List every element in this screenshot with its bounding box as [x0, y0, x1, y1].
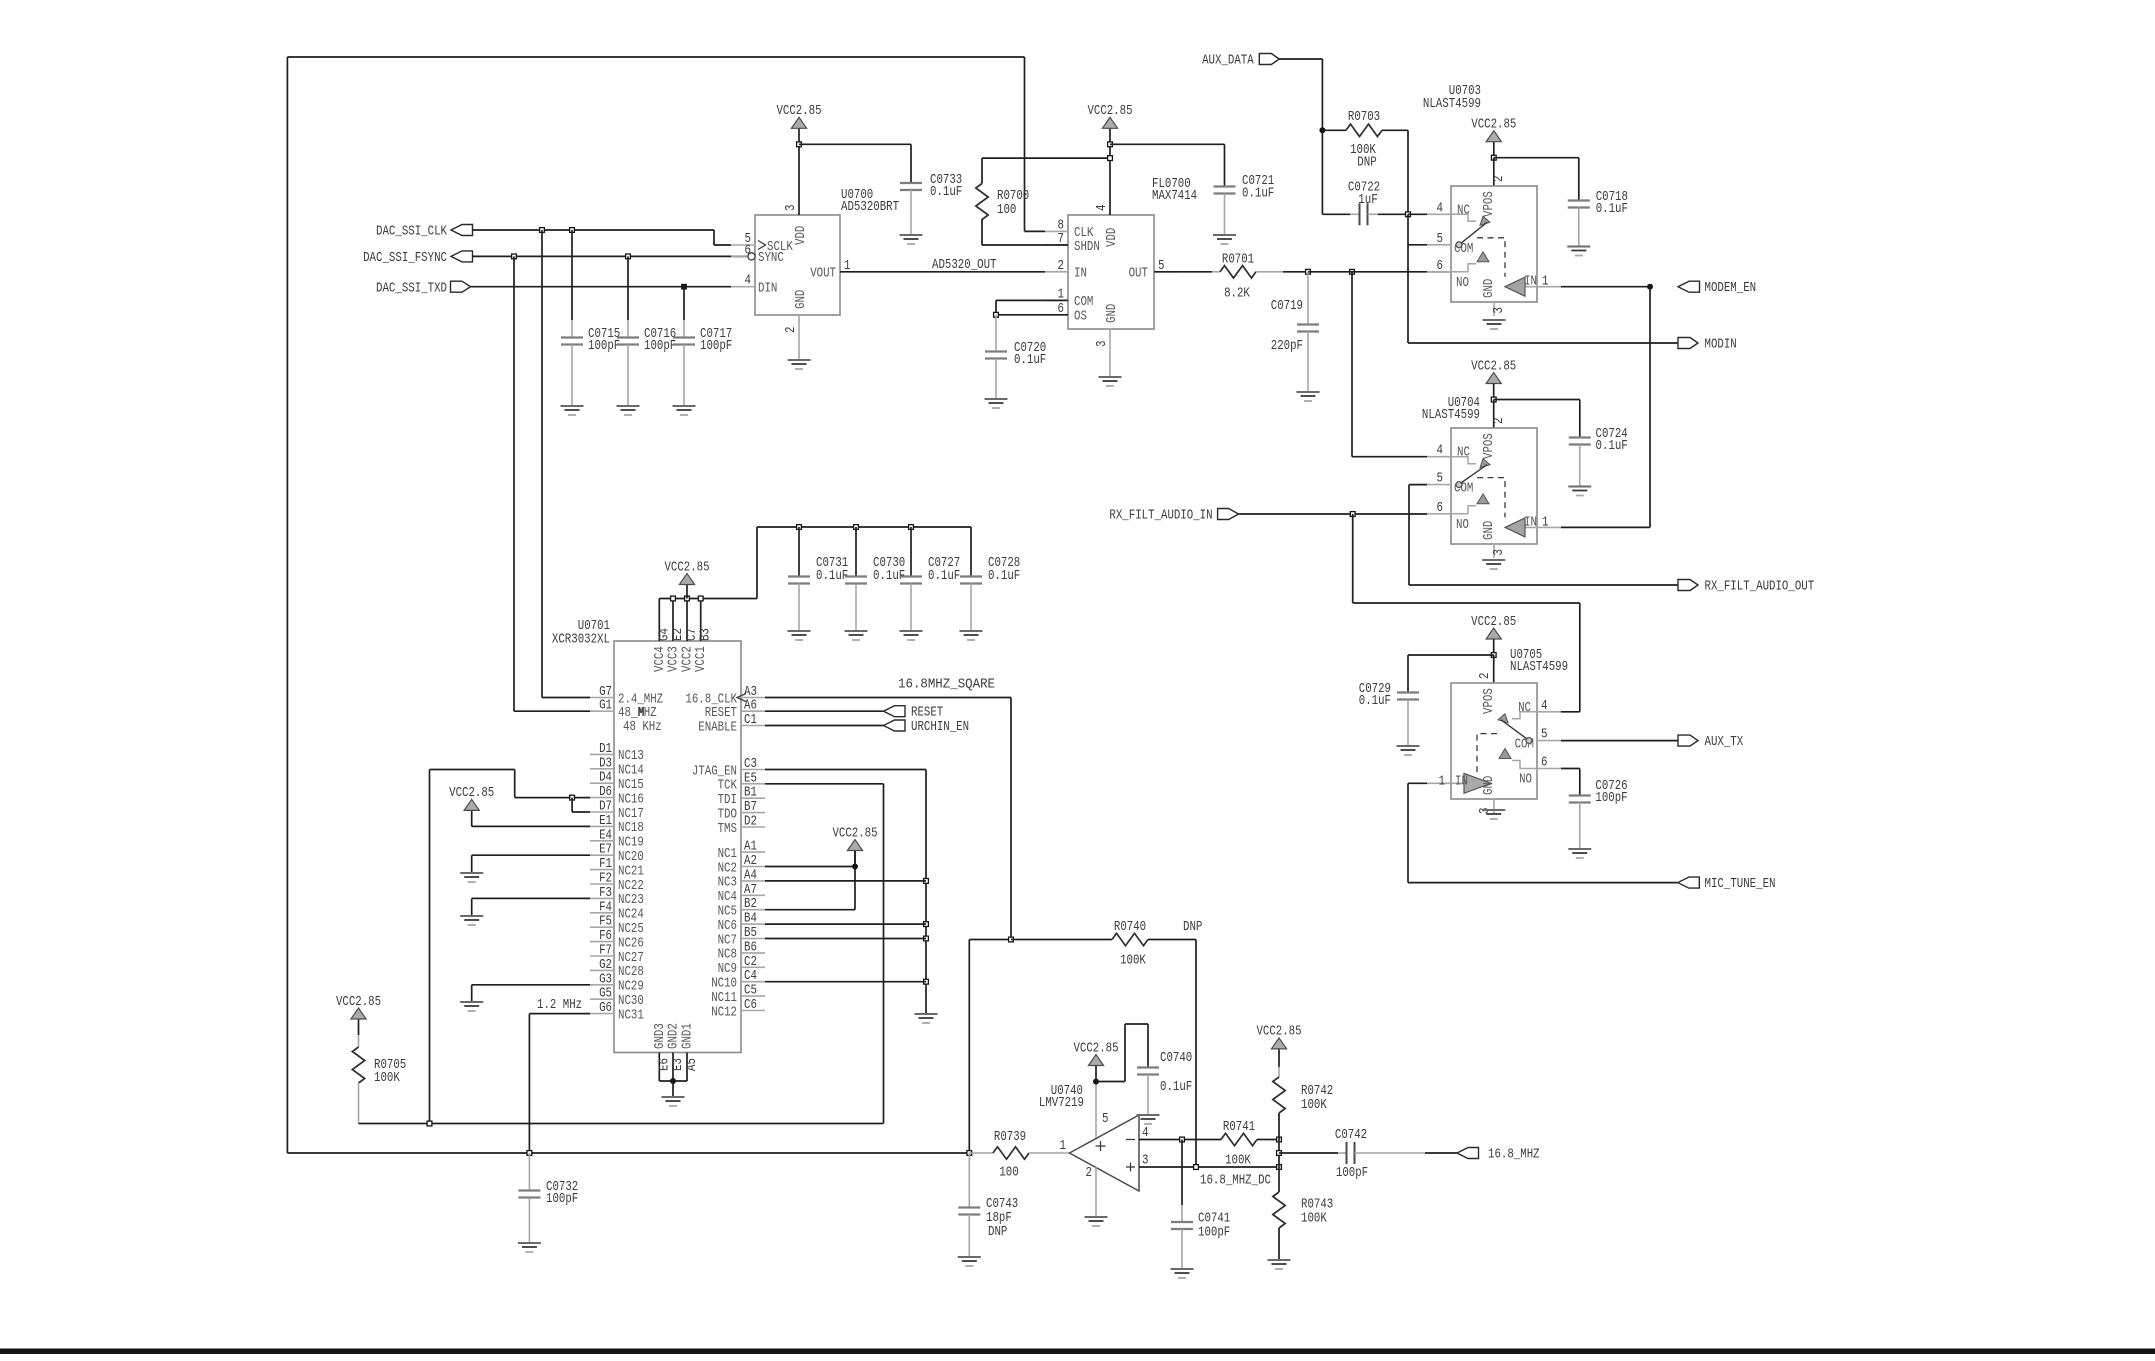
port AUX_TX — [1678, 735, 1698, 746]
ground C0741 — [1171, 1269, 1194, 1278]
svg-text:NC29: NC29 — [618, 980, 644, 995]
svg-text:4: 4 — [1437, 444, 1444, 459]
wire AD5320_OUT — [840, 271, 1045, 273]
svg-text:3: 3 — [1492, 549, 1507, 556]
U0701 pin B7 TDO — [741, 812, 765, 814]
junction VCC bus 2 — [685, 596, 690, 601]
svg-text:VCC2.85: VCC2.85 — [449, 786, 494, 801]
ground U0704 — [1482, 560, 1505, 569]
svg-text:GND: GND — [1482, 279, 1497, 298]
svg-text:MODIN: MODIN — [1705, 338, 1737, 353]
wire TCK net — [765, 783, 884, 785]
svg-text:VCC2.85: VCC2.85 — [336, 995, 381, 1010]
svg-text:G3: G3 — [599, 972, 612, 987]
port URCHIN_EN — [765, 725, 884, 727]
wire VCC to decoupling caps — [757, 526, 971, 528]
ground NC23 — [460, 916, 483, 925]
svg-text:NLAST4599: NLAST4599 — [1423, 97, 1481, 112]
svg-text:C3: C3 — [744, 757, 757, 772]
U0704 IN lead — [1525, 526, 1561, 528]
svg-text:B6: B6 — [744, 940, 757, 955]
svg-text:6: 6 — [1437, 259, 1444, 274]
U0700 pin 2 GND stub — [798, 315, 800, 360]
svg-text:D2: D2 — [744, 815, 757, 830]
filter FL0700 box — [1068, 215, 1154, 329]
svg-text:NC10: NC10 — [711, 977, 737, 992]
wire NC2 NC5 vcc — [765, 866, 855, 868]
svg-text:SYNC: SYNC — [758, 251, 784, 266]
wire MODIN — [1408, 342, 1678, 344]
svg-text:G2: G2 — [599, 958, 612, 973]
svg-text:NC3: NC3 — [718, 876, 737, 891]
U0704 IN buffer — [1505, 518, 1525, 537]
bottom border bar — [0, 1349, 2155, 1355]
wire COM-MODIN riser — [1407, 214, 1409, 343]
U0701 pin F1 NC21 — [590, 869, 614, 871]
svg-text:220pF: 220pF — [1271, 339, 1303, 354]
svg-text:AUX_TX: AUX_TX — [1705, 735, 1744, 750]
svg-text:D1: D1 — [599, 742, 612, 757]
U0705 control dashes — [1477, 734, 1497, 774]
U0701 GND pin stub A5 — [686, 1053, 688, 1082]
capacitor C0727 — [910, 527, 912, 577]
svg-text:DNP: DNP — [988, 1225, 1007, 1240]
U0701 top pin number B3 — [699, 628, 714, 641]
FL0700 pin 8 CLK stub — [1045, 230, 1068, 232]
svg-text:4: 4 — [1437, 201, 1444, 216]
U0701 top pin number E2 — [671, 628, 686, 641]
svg-text:4: 4 — [1541, 699, 1548, 714]
svg-text:VCC3: VCC3 — [667, 646, 682, 672]
svg-text:0.1uF: 0.1uF — [1596, 202, 1628, 217]
svg-text:LMV7219: LMV7219 — [1039, 1096, 1084, 1111]
svg-text:F6: F6 — [599, 929, 612, 944]
junction C0727 — [909, 525, 914, 530]
svg-text:2: 2 — [1492, 418, 1507, 425]
svg-text:NC11: NC11 — [711, 991, 737, 1006]
svg-text:RX_FILT_AUDIO_IN: RX_FILT_AUDIO_IN — [1109, 509, 1212, 524]
capacitor C0743 — [968, 1153, 970, 1208]
resistor R0740 — [1011, 939, 1112, 941]
U0701 pin A7 NC4 — [741, 894, 765, 896]
U0701 pin A4 NC3 — [741, 880, 765, 882]
svg-text:18pF: 18pF — [986, 1211, 1012, 1226]
svg-text:C5: C5 — [744, 984, 757, 999]
svg-text:IN: IN — [1455, 774, 1468, 789]
wire MODEM_EN to U0704 IN — [1649, 287, 1651, 528]
svg-text:IN: IN — [1524, 275, 1537, 290]
svg-text:E4: E4 — [599, 828, 612, 843]
svg-text:16.8_MHZ: 16.8_MHZ — [1488, 1148, 1540, 1163]
resistor R0701 — [1154, 271, 1212, 273]
svg-text:RESET: RESET — [705, 706, 737, 721]
junction NC16 NC17 — [570, 795, 575, 800]
ground U0700 — [788, 360, 811, 369]
svg-text:F2: F2 — [599, 872, 612, 887]
svg-text:2: 2 — [1478, 673, 1493, 680]
junction C0730 — [854, 525, 859, 530]
wire NC6 — [765, 923, 926, 925]
U0701 pin C6 NC12 — [741, 1010, 765, 1012]
U0701 VCC pin stub 2 — [672, 599, 674, 642]
port 16.8_MHZ — [1457, 1148, 1479, 1159]
svg-text:NC6: NC6 — [718, 919, 737, 934]
svg-text:E1: E1 — [599, 814, 612, 829]
U0701 pin F7 NC27 — [590, 955, 614, 957]
svg-text:NO: NO — [1456, 276, 1469, 291]
U0701 GND pin stub E6 — [658, 1053, 660, 1082]
port MODIN — [1678, 338, 1698, 349]
wire NC7 — [765, 938, 926, 940]
U0701 16.8_CLK out arrow — [737, 694, 746, 702]
svg-text:GND2: GND2 — [667, 1023, 682, 1049]
power VCC2.85 FL0700 — [1109, 128, 1111, 144]
junction R0739 input — [967, 1151, 972, 1156]
wire DAC_SSI_TXD — [471, 286, 732, 288]
U0701 pin C3 JTAG_EN — [741, 769, 765, 771]
U0701 pin name VCC1 — [694, 646, 709, 672]
junction JTAG NC7 — [924, 936, 929, 941]
ground C0718 — [1567, 247, 1590, 256]
svg-text:VDD: VDD — [794, 226, 809, 245]
power VCC2.85 U0701 — [686, 585, 688, 599]
svg-text:B2: B2 — [744, 897, 757, 912]
junction RX_FILT_AUDIO_IN — [1350, 512, 1355, 517]
junction FL0700 VDD / C0721 — [1108, 142, 1113, 147]
U0701 pin G7 2.4_MHZ — [590, 697, 614, 699]
svg-text:0.1uF: 0.1uF — [1596, 439, 1628, 454]
wire minus input — [1139, 1139, 1221, 1141]
svg-text:D3: D3 — [599, 756, 612, 771]
wire R0705 to TCK net — [359, 1123, 884, 1125]
svg-text:NC4: NC4 — [718, 890, 737, 905]
wire VDD to C0733 — [799, 143, 911, 145]
svg-text:NLAST4599: NLAST4599 — [1422, 408, 1480, 423]
U0701 pin C2 NC9 — [741, 966, 765, 968]
svg-text:GND: GND — [794, 290, 809, 309]
U0701 pin E7 NC20 — [590, 854, 614, 856]
svg-text:C0742: C0742 — [1335, 1128, 1367, 1143]
analog switch U0705 box — [1451, 683, 1537, 799]
power VCC2.85 U0740 — [1095, 1066, 1097, 1082]
FL0700 pin 1 COM stub — [1045, 299, 1068, 301]
junction JTAG NC10 — [924, 979, 929, 984]
U0703 switch NO contact — [1451, 264, 1476, 272]
U0703 IN buffer — [1505, 277, 1525, 296]
junction R0705 net — [427, 1121, 432, 1126]
U0701 pin F6 NC26 — [590, 941, 614, 943]
wire JTAG_EN net — [765, 769, 926, 771]
U0705 IN lead — [1427, 782, 1464, 784]
svg-text:NC23: NC23 — [618, 893, 644, 908]
U0701 pin E4 NC19 — [590, 840, 614, 842]
FL0700 pin 4 VDD stub — [1109, 144, 1111, 215]
svg-text:100pF: 100pF — [1595, 791, 1627, 806]
svg-text:1: 1 — [1439, 774, 1446, 789]
wire NC17 link — [571, 798, 573, 812]
resistor R0741 — [1221, 1133, 1257, 1145]
svg-text:100: 100 — [999, 1166, 1018, 1181]
wire 16.8MHZ out — [1279, 1152, 1338, 1154]
svg-text:1: 1 — [1542, 275, 1549, 290]
U0701 top pin number G4 — [657, 628, 672, 641]
U0701 pin F5 NC25 — [590, 926, 614, 928]
capacitor C0720 — [995, 315, 997, 352]
junction 16.8 loop top — [1009, 937, 1014, 942]
junction DAC_SSI_CLK / C0715 — [570, 228, 575, 233]
resistor R0703 — [1322, 129, 1346, 131]
svg-text:0.1uF: 0.1uF — [988, 569, 1020, 584]
svg-text:TDO: TDO — [718, 807, 737, 822]
svg-text:C0741: C0741 — [1198, 1212, 1230, 1227]
svg-text:RX_FILT_AUDIO_OUT: RX_FILT_AUDIO_OUT — [1705, 580, 1815, 595]
U0703 pin 5 COM stub — [1427, 244, 1451, 246]
U0701 pin D6 NC16 — [590, 797, 614, 799]
junction DC node — [1277, 1165, 1282, 1170]
wire U0705 COM to AUX_TX — [1561, 740, 1678, 742]
svg-text:DNP: DNP — [1183, 920, 1202, 935]
U0704 control dashes — [1477, 478, 1505, 518]
U0701 pin name VCC3 — [667, 646, 682, 672]
U0740 plus inside — [1096, 1145, 1106, 1147]
wire NC10 — [765, 981, 926, 983]
svg-text:NC22: NC22 — [618, 879, 644, 894]
svg-text:MAX7414: MAX7414 — [1152, 189, 1197, 204]
svg-text:D7: D7 — [599, 800, 612, 815]
ground C0728 — [960, 631, 983, 640]
U0701 pin name GND3 — [653, 1023, 668, 1049]
U0701 pin name VCC2 — [681, 646, 696, 672]
svg-text:48 KHz: 48 KHz — [623, 720, 662, 735]
svg-text:VCC1: VCC1 — [694, 646, 709, 672]
wire NC16 net — [515, 797, 590, 799]
capacitor C0741 — [1181, 1140, 1183, 1206]
ground U0703 — [1483, 320, 1506, 329]
svg-text:5: 5 — [1102, 1112, 1109, 1127]
power VCC2.85 NC18 — [471, 810, 473, 826]
wire VCC to C0740 — [1096, 1081, 1125, 1083]
svg-text:VPOS: VPOS — [1482, 433, 1497, 459]
capacitor C0719 — [1307, 272, 1309, 325]
ground C0732 — [518, 1243, 541, 1252]
junction U0703 VPOS — [1491, 155, 1496, 160]
svg-text:C0719: C0719 — [1271, 299, 1303, 314]
U0701 pin D3 NC14 — [590, 768, 614, 770]
svg-text:0.1uF: 0.1uF — [1014, 353, 1046, 368]
ground C0731 — [788, 631, 811, 640]
U0701 top pin number C7 — [685, 628, 700, 641]
junction MODEM_EN — [1647, 284, 1653, 290]
capacitor C0722 — [1359, 203, 1361, 225]
junction R0740 plus — [1194, 1165, 1199, 1170]
svg-text:1.2 MHz: 1.2 MHz — [537, 998, 582, 1013]
svg-text:A1: A1 — [744, 840, 757, 855]
U0705 pin 3 GND stub — [1493, 799, 1495, 813]
svg-text:0.1uF: 0.1uF — [1242, 187, 1274, 202]
svg-text:TMS: TMS — [718, 822, 737, 837]
FL0700 pin 3 GND stub — [1109, 329, 1111, 377]
capacitor C0721 — [1214, 185, 1236, 187]
svg-text:NC16: NC16 — [618, 792, 644, 807]
U0701 pin D7 NC17 — [590, 811, 614, 813]
wire 16.8MHz loop top — [287, 56, 1024, 58]
junction JTAG NC3 — [924, 879, 929, 884]
capacitor C0715 — [571, 230, 573, 320]
capacitor C0733 — [900, 182, 922, 184]
svg-text:100pF: 100pF — [546, 1192, 578, 1207]
svg-text:VCC2.85: VCC2.85 — [1256, 1025, 1301, 1040]
U0703 pin 6 NO stub — [1427, 271, 1451, 273]
svg-text:C2: C2 — [744, 955, 757, 970]
svg-text:100K: 100K — [1301, 1098, 1328, 1113]
U0703 pin 3 GND stub — [1493, 302, 1495, 316]
U0701 VCC bus — [659, 598, 757, 600]
junction DAC_SSI_FSYNC vert — [512, 254, 517, 259]
svg-text:D4: D4 — [599, 771, 612, 786]
U0701 pin A2 NC2 — [741, 866, 765, 868]
wire to U0703 NO — [1308, 271, 1451, 273]
U0701 pin D4 NC15 — [590, 782, 614, 784]
U0703 IN lead — [1525, 286, 1561, 288]
resistor R0700 — [982, 244, 1068, 246]
junction U0700 VDD / C0733 — [797, 142, 802, 147]
svg-text:NO: NO — [1456, 518, 1469, 533]
U0701 pin A3 16.8_CLK — [741, 697, 765, 699]
U0705 switch NO contact — [1512, 761, 1537, 769]
svg-text:RESET: RESET — [911, 706, 943, 721]
U0701 pin D1 NC13 — [590, 753, 614, 755]
svg-text:GND: GND — [1482, 521, 1497, 540]
svg-text:VCC2.85: VCC2.85 — [1087, 104, 1132, 119]
port MIC_TUNE_EN — [1678, 877, 1700, 888]
junction DAC_SSI_TXD / C0717 — [682, 284, 687, 289]
junction C0731 — [797, 525, 802, 530]
wire U0704 VPOS — [1493, 400, 1495, 429]
svg-text:100K: 100K — [374, 1071, 401, 1086]
U0705 pin 4 NC stub — [1537, 711, 1561, 713]
svg-text:VPOS: VPOS — [1482, 191, 1497, 217]
ground NC29 — [460, 1002, 483, 1011]
capacitor C0730 — [855, 527, 857, 577]
U0740 minus pin4 mark — [1126, 1139, 1135, 1141]
svg-text:TCK: TCK — [718, 779, 738, 794]
junction NC2 vcc — [852, 864, 858, 870]
op-amp U0700 box — [755, 215, 840, 315]
wire FL0700 CLK drop — [1024, 57, 1026, 231]
junction U0704 VPOS — [1491, 397, 1496, 402]
svg-text:AUX_DATA: AUX_DATA — [1202, 54, 1254, 69]
junction U0705 VPOS — [1491, 653, 1496, 658]
capacitor C0732 — [528, 1153, 530, 1191]
svg-text:R0743: R0743 — [1301, 1198, 1333, 1213]
wire U0703 IN to MODEM_EN — [1561, 286, 1650, 288]
svg-text:1: 1 — [1060, 1139, 1067, 1154]
svg-text:GND: GND — [1482, 776, 1497, 795]
ground C0727 — [900, 631, 923, 640]
ground C0733 — [900, 235, 923, 244]
svg-text:VCC2.85: VCC2.85 — [1073, 1041, 1118, 1056]
power VCC2.85 NC2 — [854, 851, 856, 867]
resistor R0705 — [358, 1019, 360, 1035]
U0701 pin B2 NC5 — [741, 909, 765, 911]
wire DAC_SSI_FSYNC — [473, 255, 749, 257]
U0704 pin 4 NC stub — [1427, 456, 1451, 458]
svg-text:TDI: TDI — [718, 793, 737, 808]
svg-text:6: 6 — [1437, 501, 1444, 516]
ground C0720 — [985, 399, 1008, 408]
svg-text:B4: B4 — [744, 912, 757, 927]
U0701 pin E1 NC18 — [590, 825, 614, 827]
U0704 switch NC contact — [1451, 457, 1476, 464]
svg-text:NC14: NC14 — [618, 764, 644, 779]
wire to U0703 NC — [1408, 213, 1427, 215]
CPLD U0701 box — [614, 641, 741, 1053]
svg-text:NC28: NC28 — [618, 965, 644, 980]
U0701 pin G5 NC30 — [590, 998, 614, 1000]
svg-text:R0700: R0700 — [997, 189, 1029, 204]
svg-text:100K: 100K — [1301, 1212, 1328, 1227]
svg-text:XCR3032XL: XCR3032XL — [552, 633, 610, 648]
ground C0717 — [673, 406, 696, 415]
svg-text:0.1uF: 0.1uF — [1160, 1080, 1192, 1095]
svg-text:5: 5 — [1437, 232, 1444, 247]
svg-text:16.8MHZ_SQARE: 16.8MHZ_SQARE — [898, 678, 995, 693]
wire NC23 gnd — [472, 897, 590, 899]
svg-text:0.1uF: 0.1uF — [816, 569, 848, 584]
junction R0700 / VDD — [1108, 156, 1113, 161]
svg-text:ENABLE: ENABLE — [698, 720, 737, 735]
svg-text:NC9: NC9 — [718, 962, 737, 977]
wire AUX_DATA down to C0722 — [1321, 130, 1323, 214]
svg-text:OUT: OUT — [1129, 267, 1148, 282]
svg-text:F4: F4 — [599, 900, 612, 915]
comparator U0740 — [1070, 1115, 1140, 1191]
svg-text:NC13: NC13 — [618, 749, 644, 764]
svg-text:R0741: R0741 — [1223, 1120, 1255, 1135]
svg-text:C4: C4 — [744, 969, 757, 984]
svg-text:A4: A4 — [744, 868, 757, 883]
wire U0705 NO to C0726 — [1561, 768, 1580, 770]
U0700 pin 3 VDD stub — [798, 144, 800, 215]
svg-text:VCC2.85: VCC2.85 — [776, 104, 821, 119]
power VCC2.85 U0700 — [798, 128, 800, 144]
U0704 pin 6 NO stub — [1427, 513, 1451, 515]
svg-text:E3: E3 — [671, 1058, 686, 1071]
svg-text:NC20: NC20 — [618, 850, 644, 865]
U0701 pin G2 NC28 — [590, 969, 614, 971]
svg-text:0.1uF: 0.1uF — [928, 569, 960, 584]
svg-text:100pF: 100pF — [644, 339, 676, 354]
capacitor C0729 — [1397, 691, 1419, 693]
wire NC29 gnd — [472, 984, 590, 986]
U0701 pin C5 NC11 — [741, 995, 765, 997]
svg-text:VCC2.85: VCC2.85 — [1471, 359, 1516, 374]
U0701 pin A6 RESET — [741, 710, 765, 712]
wire 16.8MHz loop left — [286, 57, 288, 1153]
svg-text:VCC2.85: VCC2.85 — [1471, 615, 1516, 630]
svg-text:F3: F3 — [599, 886, 612, 901]
junction VCC bus 1 — [671, 596, 676, 601]
U0701 GND pin stub E3 — [672, 1053, 674, 1082]
U0704 switch NO contact — [1451, 506, 1476, 514]
svg-text:MODEM_EN: MODEM_EN — [1705, 281, 1757, 296]
junction DAC_SSI_FSYNC / C0716 — [626, 254, 631, 259]
wire 2.4MHz to U0701 G7 — [541, 230, 543, 698]
svg-text:F7: F7 — [599, 944, 612, 959]
junction AUX_DATA / R0703 — [1319, 127, 1325, 133]
svg-text:100pF: 100pF — [588, 339, 620, 354]
U0705 IN buffer — [1464, 773, 1491, 793]
